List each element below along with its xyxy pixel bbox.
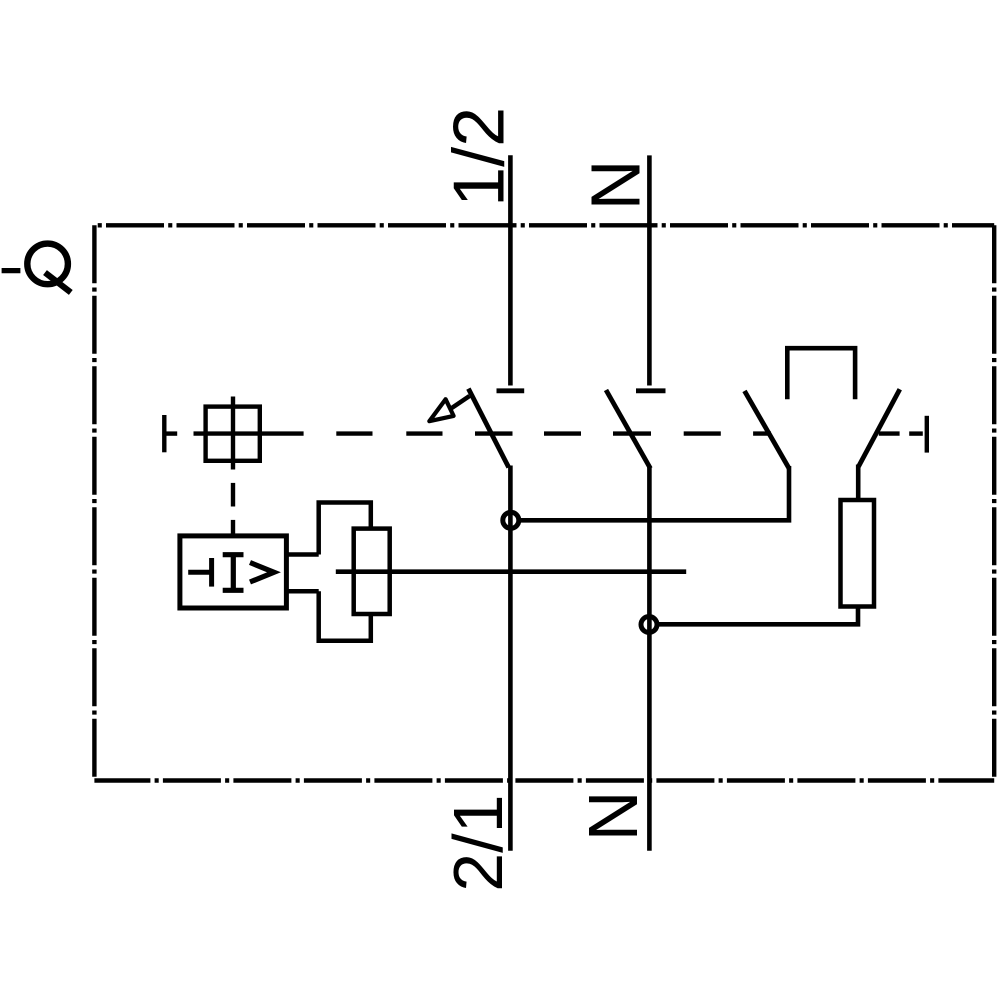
mechanical linkage end stop left xyxy=(162,415,166,452)
overcurrent symbol end bar xyxy=(209,558,214,587)
overcurrent release box U1 xyxy=(180,536,287,608)
mechanical linkage dash 9 xyxy=(909,431,923,435)
overcurrent symbol lead line xyxy=(188,570,210,575)
pole1 trip arrow shaft xyxy=(451,396,470,409)
device label -Q letter Q tail xyxy=(45,273,71,293)
mechanical linkage dash 5 xyxy=(613,431,651,435)
mechanical linkage dash 2 xyxy=(406,431,442,435)
test button cross horizontal xyxy=(194,431,304,435)
overcurrent symbol greater-than xyxy=(250,563,274,583)
mechanical linkage stub left xyxy=(164,431,177,435)
enclosure border left (dash-dot) xyxy=(92,225,96,780)
test button cross vertical xyxy=(231,397,235,470)
wire pole1 lower vertical to terminal 2/1 xyxy=(508,466,513,851)
trip bar line xyxy=(336,569,686,574)
svg-text:N: N xyxy=(574,791,652,842)
mechanical linkage dash 7 xyxy=(753,431,771,435)
enclosure border bottom (dash-dot) xyxy=(94,778,994,782)
mechanical linkage dash 6 xyxy=(684,431,721,435)
wire resistor to node wire and pole2 node xyxy=(657,605,858,625)
mechanical linkage end stop right xyxy=(925,416,929,453)
wire pole2 lower vertical to terminal N bottom xyxy=(647,467,652,851)
svg-text:1/2: 1/2 xyxy=(439,107,519,207)
test button square xyxy=(206,407,260,461)
device label -Q letter Q ring xyxy=(27,244,68,285)
pole1 switch blade xyxy=(468,389,508,468)
wire test blade right to resistor xyxy=(856,465,861,503)
trip actuator outer frame xyxy=(319,503,371,641)
mechanical linkage dash 8 xyxy=(879,431,900,435)
mechanical linkage dash 1 xyxy=(336,431,372,435)
wire terminal 1/2 top lead xyxy=(508,155,513,385)
node junction ring pole2 xyxy=(641,617,657,633)
test resistor R xyxy=(841,500,875,607)
enclosure border top (dash-dot) xyxy=(94,223,994,227)
wire test blade left to node wire xyxy=(519,466,789,520)
mechanical link dash vertical 2 xyxy=(231,520,235,537)
overcurrent symbol I stem xyxy=(231,555,236,591)
node junction ring pole1 xyxy=(503,512,519,528)
overcurrent symbol I bottom serif xyxy=(223,588,244,593)
enclosure border right (dash-dot) xyxy=(992,225,996,780)
overcurrent symbol I top serif xyxy=(223,552,244,557)
pole1 trip arrowhead xyxy=(429,399,453,421)
pole2 fixed contact bar xyxy=(636,388,666,393)
test contact blade right xyxy=(858,389,899,467)
device label -Q hyphen xyxy=(2,268,21,273)
mechanical linkage dash 3 xyxy=(475,431,513,435)
mechanical linkage dash 4 xyxy=(544,431,581,435)
release lower stub xyxy=(286,589,318,594)
mechanical link dash vertical 1 xyxy=(231,483,235,507)
wire terminal N top lead xyxy=(647,155,652,385)
release upper stub xyxy=(286,552,318,557)
test contact bridge staple xyxy=(787,348,855,399)
pole1 fixed contact bar xyxy=(497,388,525,393)
svg-text:2/1: 2/1 xyxy=(439,794,517,891)
svg-text:N: N xyxy=(576,160,654,211)
test contact blade left xyxy=(745,391,790,469)
trip actuator inner block xyxy=(354,529,390,614)
pole2 switch blade xyxy=(606,390,650,468)
